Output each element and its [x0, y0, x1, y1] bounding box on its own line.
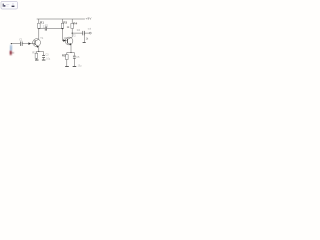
transistor T2 body	[65, 37, 73, 45]
title box left glyph	[3, 4, 4, 7]
ground under C5	[73, 65, 77, 68]
resistor R5	[66, 55, 69, 60]
wire C5 top	[73, 53, 75, 56]
background	[0, 0, 112, 78]
wire R4 top	[71, 19, 73, 24]
input icon blue stroke	[10, 45, 12, 51]
svg-text:10µ: 10µ	[78, 65, 83, 67]
svg-text:+9V: +9V	[86, 17, 92, 21]
wire C2 left	[39, 28, 45, 30]
Q2 base arrow	[63, 39, 66, 42]
transistor T2 collector lead	[67, 33, 72, 39]
wire input left	[12, 43, 20, 45]
svg-text:R3: R3	[63, 20, 67, 24]
wire R5 top	[66, 53, 68, 55]
svg-text:R4: R4	[73, 21, 77, 25]
wire R4 bottom to node Y	[71, 29, 73, 34]
input icon red stroke	[10, 51, 12, 56]
wire C3 bottom to ground	[43, 58, 45, 60]
input signal arrow	[28, 42, 31, 45]
svg-text:out: out	[88, 28, 92, 31]
capacitor C3	[42, 55, 45, 58]
capacitor C4	[83, 31, 85, 35]
wire R5 bottom to ground	[66, 60, 68, 67]
wire C2 right to node X	[47, 28, 63, 30]
wire R3 top	[62, 19, 64, 23]
node X junction dot	[62, 28, 63, 29]
node N1 junction dot	[38, 28, 39, 29]
wire output drop to ground	[83, 33, 85, 42]
wire C5 bottom to ground	[73, 59, 75, 67]
T1 emitter junction dot	[38, 51, 39, 52]
title box	[1, 1, 17, 9]
svg-text:R5: R5	[62, 54, 66, 58]
title box middle marks	[6, 3, 9, 6]
capacitor C5	[73, 56, 76, 59]
transistor T1 body	[33, 39, 41, 47]
T2 emitter junction dot	[70, 52, 71, 53]
T1 base bar	[34, 40, 37, 45]
wire R1 bottom to Q1 collector	[38, 28, 40, 39]
output terminal	[89, 32, 91, 34]
T1 emitter arrow	[36, 45, 38, 48]
svg-text:10µ: 10µ	[46, 59, 51, 61]
title box right dash	[12, 6, 15, 7]
ground under R2	[35, 59, 39, 62]
wire C4 to output terminal	[85, 32, 90, 34]
transistor T2 emitter lead	[67, 43, 71, 53]
resistor R4	[71, 23, 74, 28]
node Y junction dot	[72, 33, 73, 34]
ground under R5	[65, 65, 69, 68]
transistor T1 collector lead	[35, 39, 39, 41]
ground under output	[83, 41, 86, 44]
T2 emitter arrow	[70, 43, 72, 46]
wire node Y to C4	[72, 32, 82, 34]
capacitor C2	[45, 27, 47, 31]
T2 base bar	[66, 39, 69, 44]
resistor R2	[35, 53, 38, 58]
wire T2 emitter node	[67, 52, 75, 54]
transistor T1 emitter lead	[35, 44, 39, 51]
wire arrow to Q1 base	[31, 43, 35, 45]
wire C3 top	[43, 52, 45, 56]
wire C1 to arrow	[23, 43, 29, 45]
ground under C3	[42, 59, 46, 62]
svg-text:R1: R1	[40, 20, 44, 24]
wire R2 bottom to ground	[35, 58, 37, 59]
VCC rail	[37, 18, 85, 20]
wire R2 top	[35, 52, 37, 54]
wire T1 emitter node	[36, 51, 43, 53]
resistor R3	[61, 23, 64, 28]
wire R1 top	[38, 19, 40, 23]
capacitor C1	[20, 42, 22, 46]
wire node X to Q2 base bend	[63, 28, 68, 41]
input terminal dot	[11, 43, 12, 44]
resistor R1	[38, 23, 41, 28]
